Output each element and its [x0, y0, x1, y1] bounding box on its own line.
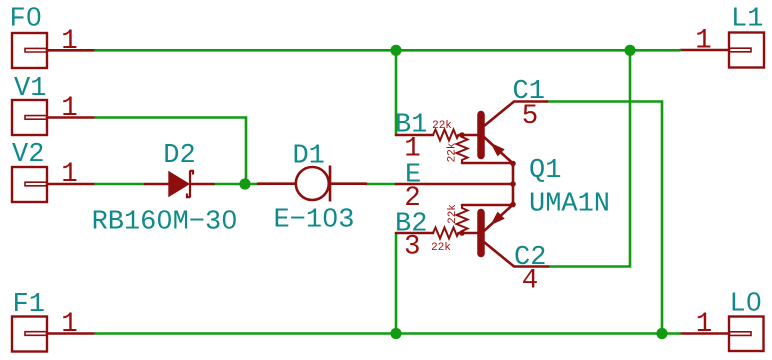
Q1 internal dot E-top [510, 161, 516, 167]
Q1 pin E [396, 183, 513, 186]
svg-text:1: 1 [61, 26, 78, 57]
svg-text:1: 1 [696, 309, 713, 340]
Q1 upper emitter arrow [490, 143, 504, 157]
svg-text:22k: 22k [447, 204, 459, 224]
wire V1 to junction [96, 118, 247, 185]
svg-text:L0: L0 [730, 289, 762, 319]
L1 pin 1 [680, 49, 729, 52]
L0 pin 1 [680, 332, 729, 335]
Q1 emitter bus [512, 163, 515, 205]
V2 pin 1 [47, 183, 96, 186]
svg-text:F0: F0 [10, 4, 42, 34]
Q1 lower emitter arrow [490, 212, 504, 226]
svg-text:Q1: Q1 [529, 156, 561, 186]
Q1 B2 series resistor 22k [433, 228, 459, 239]
junction mid (V1/V2/D1) [239, 178, 250, 189]
Q1 upper resistor to emitter wire [462, 162, 513, 165]
wire C2 to top rail [548, 50, 630, 266]
svg-text:D2: D2 [163, 141, 195, 171]
Q1 pin B2 [396, 232, 433, 235]
junction bottom-left [390, 328, 401, 339]
svg-text:3: 3 [404, 232, 421, 263]
connector V2 [12, 167, 47, 202]
diode D2 anode pin [145, 183, 169, 186]
connector F0 [12, 33, 47, 68]
Q1 B1 to base wire [459, 134, 478, 137]
wire B2 to bottom rail [395, 233, 398, 334]
wire D2 to junction [214, 183, 246, 186]
connector V1 [12, 100, 47, 135]
svg-text:22k: 22k [431, 242, 451, 254]
svg-text:L1: L1 [731, 5, 763, 35]
D1 body circle [296, 167, 329, 200]
Q1 internal dot E-mid [510, 181, 516, 187]
connector F1 [12, 317, 47, 352]
Q1 upper base-emitter resistor 22k [457, 135, 468, 163]
diode D2 body [168, 171, 193, 198]
Q1 upper emitter [485, 138, 514, 164]
wire junction to D1 [245, 183, 259, 186]
D1 left pin [258, 182, 295, 185]
Q1 lower collector [484, 242, 548, 267]
svg-text:4: 4 [522, 265, 539, 296]
wire top rail to B1 [395, 50, 398, 135]
svg-text:D1: D1 [292, 141, 324, 171]
Q1 B2 to base wire [459, 232, 478, 235]
D1 right pin [330, 182, 366, 185]
junction bottom-right [656, 328, 667, 339]
svg-text:22k: 22k [447, 142, 459, 162]
Q1 lower base-emitter resistor 22k [457, 205, 468, 233]
F1 pin 1 [47, 332, 96, 335]
wire bottom rail [96, 332, 681, 335]
Q1 internal node dot B2 [459, 230, 465, 236]
Q1 internal node dot B1 [459, 132, 465, 138]
Q1 pin B1 [396, 134, 433, 137]
svg-text:V2: V2 [12, 140, 44, 170]
svg-text:RB160M−30: RB160M−30 [92, 208, 238, 238]
svg-text:5: 5 [522, 101, 539, 132]
svg-text:F1: F1 [13, 290, 45, 320]
Q1 internal dot E-bottom [510, 202, 516, 208]
svg-text:1: 1 [61, 159, 78, 190]
svg-text:E−103: E−103 [273, 206, 354, 236]
junction top-right [624, 45, 635, 56]
Q1 upper collector [484, 102, 547, 127]
connector L0 [729, 317, 764, 352]
svg-text:22k: 22k [432, 120, 452, 132]
svg-text:1: 1 [695, 26, 712, 57]
wire V2 to D2 [96, 183, 146, 186]
F0 pin 1 [47, 49, 96, 52]
svg-text:1: 1 [61, 93, 78, 124]
Q1 lower emitter [485, 205, 514, 231]
zero-dot masks (font cleanup) [31, 13, 757, 304]
V1 pin 1 [47, 116, 96, 119]
junction top-left [390, 45, 401, 56]
Q1 lower base bar [477, 213, 485, 254]
Q1 upper base bar [477, 115, 485, 156]
svg-text:V1: V1 [14, 74, 46, 104]
wire D1 to Q1 E [366, 183, 396, 186]
D1 body bar [329, 166, 332, 202]
svg-text:UMA1N: UMA1N [529, 189, 610, 219]
wire C1 to bottom rail [547, 102, 662, 334]
diode D2 cathode pin [190, 183, 214, 186]
svg-text:1: 1 [61, 309, 78, 340]
wire top rail [96, 49, 681, 52]
connector L1 [729, 33, 764, 68]
Q1 lower resistor to emitter wire [462, 204, 513, 207]
Q1 B1 series resistor 22k [433, 130, 459, 141]
